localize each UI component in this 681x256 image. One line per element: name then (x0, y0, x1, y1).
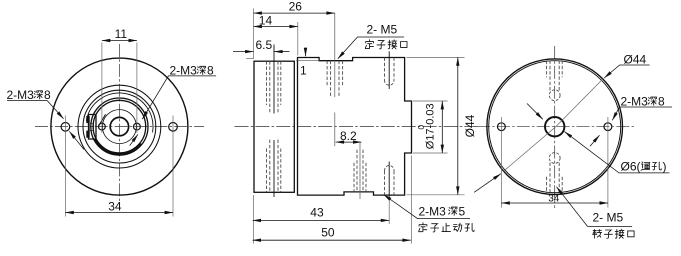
M3 stop hole top centerline (388, 51, 390, 89)
dimension 11 (102, 27, 137, 41)
tick mark near left M3 hole (99, 114, 106, 126)
right view center bore D6 (545, 117, 564, 136)
left view rotor cap circle (78, 85, 161, 168)
tick mark on ring lower right (131, 148, 134, 153)
left view pitch circle of M3 holes (102, 110, 136, 144)
left view center bore (110, 117, 128, 135)
left view ring inner (93, 100, 146, 153)
bottom recess hole (hidden) (354, 150, 366, 192)
dimension 14 (254, 26, 298, 28)
dimension D17 tolerance (413, 101, 448, 153)
svg-text:5: 5 (459, 204, 466, 218)
dimension 34 (left view) (65, 199, 173, 213)
rotor end cap block (254, 61, 294, 192)
label 2-M5 rotor interface (557, 187, 635, 239)
right view bottom hidden hole (547, 153, 563, 194)
left view M3 hole left (99, 123, 106, 130)
label 2-M3 deep8 (right view) (590, 94, 672, 146)
rotor cap M5 hole top (hidden) (267, 61, 281, 114)
svg-text:2- M5: 2- M5 (367, 22, 398, 36)
left view horizontal centerline (35, 126, 204, 128)
svg-text:8: 8 (658, 94, 665, 108)
svg-text:): ) (663, 160, 667, 174)
recess hole centerline / dim8.2 extension (359, 142, 361, 199)
dimension 43 (253, 219, 390, 221)
ring dark emphasis arc lower (95, 139, 141, 154)
dimension 50 (253, 239, 411, 241)
right view horizontal centerline (477, 126, 634, 128)
stator M5 hole in groove (hidden) (327, 61, 343, 98)
left view vertical centerline (118, 44, 120, 210)
label 2-M3 deep8 top-left (7, 88, 64, 119)
left view outer circle (stator housing OD) (51, 58, 188, 195)
svg-text:34: 34 (108, 199, 122, 213)
label D44 with diameter leader (474, 52, 649, 192)
dimension D44 (middle view) (407, 57, 478, 194)
label 2-M3 deep5 stator stop hole (384, 195, 475, 232)
left face extension lines (253, 9, 255, 59)
svg-text:2-M3: 2-M3 (419, 204, 447, 218)
svg-text:43: 43 (310, 206, 324, 220)
left view ring outer (91, 98, 148, 155)
dimension 26 (254, 12, 335, 14)
svg-text:2-M3: 2-M3 (7, 88, 35, 102)
stator body outline with boss (298, 58, 412, 196)
svg-text:8.2: 8.2 (340, 129, 357, 143)
M3 stop hole bottom centerline / dim43 extension (388, 162, 390, 200)
svg-text:50: 50 (321, 226, 335, 240)
dimension 1 (305, 48, 307, 57)
boss right face extension (411, 156, 413, 244)
svg-text:14: 14 (259, 14, 273, 28)
left view flange hole right (169, 123, 178, 132)
dimension 6.5 (233, 51, 254, 53)
svg-text:Ø44: Ø44 (463, 114, 477, 137)
svg-text:6.5: 6.5 (256, 38, 273, 52)
left view flange hole left (61, 123, 70, 132)
svg-text:11: 11 (115, 27, 128, 41)
extension lines for dim 34 (right view) (500, 117, 502, 208)
svg-text:8: 8 (44, 88, 51, 102)
svg-text:2- M5: 2- M5 (593, 210, 624, 224)
right view vertical centerline (554, 46, 556, 208)
pass-through arrow at right M3 hole (130, 134, 138, 145)
svg-text:34: 34 (548, 193, 560, 204)
svg-text:2-M3: 2-M3 (170, 63, 198, 77)
svg-text:8: 8 (207, 63, 214, 77)
svg-text:2-M3: 2-M3 (621, 94, 649, 108)
left view inner boss circle (83, 90, 156, 163)
stator M5 hole centerline / dim26 extension (334, 13, 336, 97)
svg-text:26: 26 (289, 0, 303, 13)
svg-text:Ø44: Ø44 (624, 52, 647, 66)
right view flange hole right (604, 123, 612, 131)
right view rotor cap circle (489, 61, 621, 193)
left view M3 hole right (134, 123, 141, 130)
left view partial arc (86, 93, 153, 132)
pass-through arrow at left flange hole (69, 131, 84, 149)
rotor cap M5 hole bottom (hidden) (267, 140, 281, 193)
right view outer circle (487, 59, 623, 195)
dimension 34 (right view) (501, 202, 608, 204)
extension lines for dim 34 (left view) (65, 116, 173, 217)
label D6 through hole (527, 104, 669, 174)
right view flange hole left (498, 123, 506, 131)
svg-text:1: 1 (300, 64, 307, 78)
groove floor extension line (296, 60, 319, 62)
dimension 8.2 (336, 141, 362, 143)
rotor cap M5 hole bottom centerline (273, 140, 275, 197)
rotor cap M5 hole top centerline (273, 45, 275, 114)
svg-text:Ø6(: Ø6( (621, 160, 641, 174)
middle view horizontal centerline (235, 126, 478, 128)
M3 stop hole top (hidden) (385, 58, 395, 86)
svg-text:Ø17-0.03: Ø17-0.03 (425, 103, 437, 149)
connector block on rotor face (87, 115, 96, 140)
svg-text:0: 0 (416, 125, 426, 130)
right view top hidden hole (547, 61, 563, 101)
label 2-M3 deep8 top-right (142, 63, 216, 119)
M3 stop hole bottom (hidden) (385, 166, 395, 196)
stator left edge extension (297, 22, 299, 56)
extension lines for dim 11 (102, 43, 137, 134)
label 2-M5 stator interface (338, 22, 407, 59)
